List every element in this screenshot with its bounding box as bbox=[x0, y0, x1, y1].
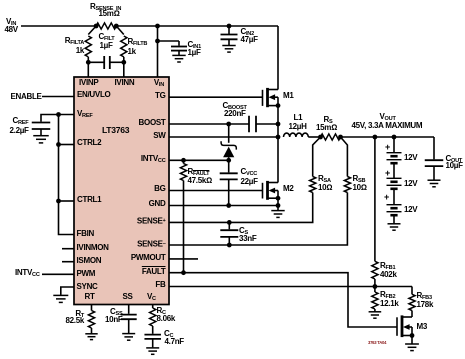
label RSA value bbox=[318, 184, 332, 192]
node junction bus-CTRL1 bbox=[56, 199, 61, 204]
label RC name bbox=[157, 307, 166, 317]
node junction GND-M2 bbox=[276, 203, 281, 208]
label IC name LT3763 bbox=[102, 126, 129, 134]
wire ISMON stub bbox=[62, 261, 74, 263]
pin ISMON bbox=[77, 257, 102, 265]
label battery1 12V bbox=[404, 154, 417, 162]
resistor RSENSE_IN bbox=[96, 23, 116, 29]
wire rail corner down to M1 drain bbox=[277, 26, 279, 90]
pin TG bbox=[155, 92, 166, 100]
pin SW bbox=[153, 132, 165, 140]
wire PWMOUT stub bbox=[169, 258, 198, 260]
wire TG pin to M1 gate bbox=[169, 96, 263, 98]
ground battery stack bbox=[388, 223, 401, 225]
pin IVINN bbox=[115, 79, 135, 87]
label CIN1 value bbox=[188, 49, 201, 57]
wire VIN input rail right segment bbox=[116, 25, 278, 27]
transistor M2 bbox=[262, 183, 264, 199]
pin SENSE+ bbox=[137, 217, 166, 226]
pin IVINMON bbox=[77, 244, 109, 252]
wire B2-B3 bbox=[393, 189, 395, 205]
label RSA name bbox=[318, 175, 331, 185]
inductor L1 bbox=[284, 133, 309, 137]
node junction switchnode-SW bbox=[276, 135, 281, 140]
resistor RT bbox=[88, 311, 94, 329]
label M2 bbox=[283, 185, 294, 193]
wire VREF pin to CREF bbox=[41, 115, 74, 122]
capacitor CVCC bbox=[220, 172, 238, 174]
node junction VREF-CTRL bus bbox=[56, 112, 61, 117]
node junction rail-RSENSE right bbox=[114, 24, 119, 29]
pin SS bbox=[123, 293, 133, 301]
wire VOUT rail bbox=[341, 136, 435, 138]
wire RFAULT down to FAULT line bbox=[183, 181, 185, 273]
label RFB3 name bbox=[417, 292, 432, 302]
resistor RFAULT bbox=[183, 160, 185, 163]
wire FAULT line bbox=[169, 273, 397, 327]
wire B1-B2 bbox=[393, 163, 395, 178]
label CS name bbox=[239, 227, 248, 237]
label CIN2 name bbox=[241, 28, 254, 38]
label RFAULT name bbox=[188, 168, 210, 178]
label VOUT name bbox=[380, 113, 396, 123]
pin VC bbox=[147, 293, 156, 303]
node junction bus-CTRL2 bbox=[56, 142, 61, 147]
wire BG pin to M2 gate bbox=[169, 190, 263, 192]
resistor RFB2 bbox=[372, 292, 378, 309]
pin FB bbox=[155, 281, 165, 289]
wire CSS to ground bbox=[128, 319, 130, 333]
pin RT bbox=[85, 293, 95, 301]
resistor RFILTB bbox=[121, 36, 127, 57]
label COUT value bbox=[446, 162, 463, 170]
ground M2 source bbox=[271, 210, 284, 212]
capacitor COUT bbox=[425, 159, 444, 161]
resistor RC bbox=[150, 308, 156, 326]
node junction IVINN-CFILT bbox=[121, 60, 126, 65]
wire RFB2 top bbox=[374, 287, 376, 293]
wire INTVCC pin line bbox=[169, 159, 229, 161]
pin PWM bbox=[77, 270, 96, 278]
wire CC to ground bbox=[152, 339, 154, 348]
wire SW pin to switch node bbox=[169, 136, 278, 138]
label L1 value bbox=[289, 123, 307, 131]
wire CVCC top bbox=[228, 160, 230, 172]
wire RFILTB bottom to IVINN pin bbox=[123, 57, 125, 77]
wire RFILTA bottom to IVINP pin bbox=[87, 57, 89, 77]
capacitor CFILT bbox=[88, 61, 104, 63]
label RS value bbox=[316, 124, 337, 132]
label battery2 12V bbox=[404, 180, 417, 188]
wire ENABLE to EN/UVLO pin bbox=[42, 96, 74, 98]
wire CREF to ground bbox=[40, 129, 42, 135]
label RFAULT value bbox=[188, 177, 212, 185]
label RFILTA value bbox=[76, 47, 84, 55]
wire VOUT corner to COUT bbox=[433, 137, 435, 159]
battery B1 12V bbox=[387, 152, 402, 154]
wire RSENSE right to RFILTB bbox=[116, 26, 124, 35]
resistor RFILTA bbox=[85, 36, 91, 57]
label CSS value bbox=[105, 316, 122, 324]
label CREF name bbox=[13, 117, 29, 127]
wire COUT to ground bbox=[433, 166, 435, 180]
node junction rail-VINpin bbox=[155, 24, 160, 29]
wire B3 to ground bbox=[393, 215, 395, 223]
label CREF value bbox=[10, 127, 29, 135]
wire CIN1 stub bbox=[158, 40, 180, 42]
node junction M1 source bbox=[276, 103, 281, 108]
wire CVCC to GND line bbox=[228, 179, 230, 205]
wire RSB to SENSE- line bbox=[169, 193, 347, 246]
node junction INTVCC-diode-CVCC bbox=[226, 158, 231, 163]
capacitor CSS bbox=[121, 314, 137, 316]
pin IVINP bbox=[79, 79, 98, 87]
label RSB name bbox=[353, 175, 366, 185]
pin EN/UVLO bbox=[77, 91, 110, 99]
wire RT to ground bbox=[91, 328, 93, 333]
label CS value bbox=[239, 235, 256, 243]
wire RSA top bbox=[313, 137, 321, 177]
wire FB line bbox=[169, 286, 412, 288]
wire rail to CIN2 bbox=[228, 26, 230, 34]
node junction SENSE--CS bbox=[227, 243, 232, 248]
pin BOOST bbox=[139, 119, 166, 127]
wire RSA to SENSE+ line bbox=[169, 193, 313, 223]
wire CTRL2 pin bbox=[59, 144, 75, 146]
resistor RFB1 bbox=[372, 261, 378, 279]
wire VIN input rail left segment bbox=[21, 25, 96, 27]
ground COUT bbox=[428, 179, 441, 181]
label battery3 12V bbox=[404, 206, 417, 214]
wire RFB3 top bbox=[411, 287, 413, 295]
pin CTRL2 bbox=[77, 139, 101, 147]
wire CIN1 to ground bbox=[178, 51, 180, 55]
label RFB1 value bbox=[380, 271, 397, 279]
label battery3 plus bbox=[384, 193, 389, 201]
transistor M3 bbox=[396, 317, 398, 336]
label battery2 plus bbox=[385, 169, 390, 177]
label VOUT rating bbox=[352, 122, 423, 130]
wire VREF bus down to FBIN bbox=[59, 115, 75, 235]
node junction RFAULT-FAULT bbox=[181, 270, 186, 275]
label figure number 3763 TA04 bbox=[368, 340, 386, 345]
diode D1 schottky bbox=[221, 141, 236, 149]
node junction rail-RSENSE left bbox=[94, 24, 99, 29]
label CVCC name bbox=[241, 168, 258, 178]
ground CSS bbox=[122, 333, 135, 335]
pin SENSE- bbox=[137, 240, 165, 249]
ground SYNC bbox=[53, 294, 68, 296]
label CC name bbox=[164, 330, 173, 340]
node junction M3 source bbox=[410, 333, 415, 338]
capacitor CS bbox=[220, 229, 238, 231]
wire CBOOST to switch node bbox=[256, 123, 278, 125]
label L1 name bbox=[294, 114, 303, 122]
wire SYNC pin to ground bbox=[61, 287, 74, 295]
capacitor CIN1 bbox=[171, 46, 187, 48]
wire CS bottom stub bbox=[228, 237, 230, 245]
wire INTVCC to PWM pin bbox=[42, 273, 74, 275]
wire CTRL1 pin bbox=[59, 200, 75, 202]
label CFILT value bbox=[100, 42, 113, 50]
transistor M1 bbox=[262, 90, 264, 106]
wire RSENSE left to RFILTA bbox=[88, 26, 96, 35]
wire BOOST down to diode bbox=[228, 124, 230, 143]
wire rail to VIN pin bbox=[157, 26, 159, 77]
wire IVINMON stub bbox=[62, 248, 74, 250]
label CC value bbox=[165, 338, 184, 346]
label M3 bbox=[417, 323, 428, 331]
label RSENSE_IN name bbox=[90, 3, 121, 13]
battery B2 12V bbox=[387, 177, 402, 179]
wire RFB3 to M3 drain bbox=[411, 311, 413, 318]
wire M1 source down switch node bbox=[277, 106, 279, 183]
label CVCC value bbox=[241, 178, 258, 186]
resistor RSA bbox=[310, 177, 316, 193]
label RFB1 name bbox=[380, 262, 395, 272]
resistor RFB3 bbox=[409, 294, 415, 310]
wire SS pin down bbox=[128, 305, 130, 314]
wire BOOST pin to CBOOST bbox=[169, 123, 249, 125]
node junction RS right bbox=[338, 135, 343, 140]
node junction SENSE+-CS bbox=[227, 220, 232, 225]
label CFILT name bbox=[99, 33, 115, 43]
capacitor CC bbox=[144, 334, 161, 336]
label INTVCC net left bbox=[15, 269, 40, 279]
battery B3 12V bbox=[387, 204, 402, 206]
wire RFB1 top bbox=[374, 137, 376, 261]
label COUT name bbox=[446, 155, 463, 165]
ground RFB2 bbox=[369, 311, 382, 313]
pin GND bbox=[149, 200, 166, 208]
node junction BOOST-diode bbox=[226, 122, 231, 127]
wire CS top stub bbox=[228, 222, 230, 229]
label battery1 plus bbox=[385, 143, 390, 151]
pin FAULT bbox=[142, 268, 166, 276]
node junction M2 source bbox=[276, 196, 281, 201]
capacitor CIN2 bbox=[221, 34, 238, 36]
label RFILTB name bbox=[128, 38, 148, 48]
pin SYNC bbox=[77, 283, 98, 291]
label RT value bbox=[65, 317, 84, 325]
ground RT bbox=[85, 333, 97, 335]
resistor RSB bbox=[344, 177, 350, 193]
wire RT pin down bbox=[91, 305, 93, 311]
label CIN1 name bbox=[188, 41, 201, 51]
pin VREF bbox=[77, 110, 92, 120]
label RFB2 name bbox=[380, 291, 395, 301]
wire VC pin down bbox=[152, 305, 154, 309]
pin BG bbox=[154, 185, 165, 193]
node junction rail-CIN2 bbox=[227, 24, 232, 29]
node junction VINpin-CIN1 bbox=[155, 39, 160, 44]
wire RC to CC bbox=[152, 326, 154, 334]
ground CIN1 bbox=[172, 54, 185, 56]
node junction INTVCC-RFAULT bbox=[181, 158, 186, 163]
wire RFB1 bottom bbox=[374, 279, 376, 287]
wire M2 ground stub bbox=[277, 206, 279, 211]
label RFILTB value bbox=[128, 48, 136, 56]
label RFB2 value bbox=[380, 300, 399, 308]
label RC value bbox=[157, 315, 176, 323]
label CBOOST name bbox=[223, 102, 247, 112]
capacitor CREF bbox=[32, 122, 51, 124]
pin CTRL1 bbox=[77, 196, 101, 204]
label net VIN 48V bbox=[6, 18, 16, 28]
op-amp U1 LT3763 IC body bbox=[74, 77, 169, 305]
label RT name bbox=[75, 310, 84, 320]
pin PWMOUT bbox=[131, 254, 166, 262]
wire RSB top bbox=[341, 137, 348, 177]
wire CIN2 to ground bbox=[228, 39, 230, 45]
wire M3 source ground stub bbox=[411, 336, 413, 344]
label RSB value bbox=[353, 184, 367, 192]
node junction VOUT-battery bbox=[392, 135, 397, 140]
pin INTVCC bbox=[141, 155, 166, 165]
pin FBIN bbox=[77, 230, 94, 238]
wire battery stack top bbox=[393, 137, 395, 153]
wire M2 source to GND line bbox=[277, 198, 279, 205]
label RFB3 value bbox=[417, 301, 434, 309]
capacitor CBOOST bbox=[248, 116, 250, 133]
node junction FB-RFB1-RFB2 bbox=[373, 284, 378, 289]
label ENABLE bbox=[11, 93, 42, 101]
node junction switchnode-CBOOST bbox=[276, 122, 281, 127]
label CBOOST value bbox=[224, 110, 246, 118]
node junction VOUT-RFB1 bbox=[373, 135, 378, 140]
ground M3 bbox=[405, 343, 419, 345]
label net VIN voltage bbox=[5, 26, 18, 34]
label CSS name bbox=[110, 308, 122, 318]
pin VIN bbox=[154, 79, 164, 89]
label RS name bbox=[324, 116, 333, 126]
node junction CVCC-GND bbox=[226, 203, 231, 208]
ground CREF bbox=[33, 135, 49, 137]
label RSENSE_IN value bbox=[99, 10, 120, 18]
node junction RS left bbox=[318, 135, 323, 140]
resistor RS bbox=[321, 134, 341, 140]
ground CIN2 bbox=[222, 45, 235, 47]
node junction IVINP-CFILT bbox=[86, 60, 91, 65]
wire RFB2 to ground bbox=[374, 309, 376, 311]
label CIN2 value bbox=[241, 36, 258, 44]
ground CC bbox=[146, 347, 159, 349]
label RFILTA name bbox=[65, 37, 84, 47]
wire GND pin line bbox=[169, 205, 278, 207]
label M1 bbox=[283, 92, 294, 100]
